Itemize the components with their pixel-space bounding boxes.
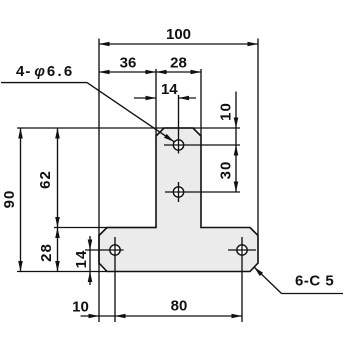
dimension 10 (bottom, outside arrow) <box>72 299 115 319</box>
svg-text:14: 14 <box>73 250 90 269</box>
leader 6-C5 (points to base bottom-right chamfer) <box>254 267 343 294</box>
hole H4 base right (phi 6.6) <box>237 245 247 255</box>
hole H3 crosshair horizontal / extension to left 14 dim <box>85 249 124 251</box>
svg-text:100: 100 <box>166 26 191 43</box>
hole H2 crosshair vertical <box>178 182 180 202</box>
hole H1 crosshair vertical / extension to 14 dim <box>178 95 180 154</box>
extension line stem right edge x=201 <box>200 69 202 136</box>
extension line stem left edge x=156 <box>155 69 157 136</box>
extension line left plate edge x=99 <box>98 39 100 323</box>
svg-text:90: 90 <box>1 190 18 209</box>
hole H1 crosshair horizontal <box>164 144 193 146</box>
svg-text:36: 36 <box>120 55 137 72</box>
extension line plate bottom y=271.5 <box>17 271 107 273</box>
svg-text:10: 10 <box>218 102 235 121</box>
svg-text:28: 28 <box>38 243 55 262</box>
svg-text:62: 62 <box>37 170 54 189</box>
extension line base top y=227.5 <box>54 227 156 229</box>
dimension 80 (bottom) <box>115 298 242 319</box>
svg-text:10: 10 <box>72 299 89 316</box>
dimension 28 (top) <box>156 55 201 75</box>
svg-text:28: 28 <box>170 55 187 72</box>
svg-text:6-C 5: 6-C 5 <box>295 273 334 290</box>
leader 4-phi6.6 (points to stem upper hole) <box>1 63 174 142</box>
hole H2 crosshair horizontal / extension to 30 dim <box>165 191 240 193</box>
dimension 14 (left, outside arrows) <box>73 236 92 285</box>
hole H4 crosshair horizontal <box>228 249 256 251</box>
hole H4 crosshair vertical / extension to bottom 80 dim <box>241 237 243 322</box>
plate outline (inverted-T plate with 6 chamfered corners) <box>99 128 258 272</box>
hole H1 stem upper (phi 6.6) <box>173 140 183 150</box>
dimension 30 (right) <box>218 145 239 192</box>
dimension 100 (top) <box>99 26 258 46</box>
dimension 10 (right, outside arrows) <box>218 92 239 156</box>
extension line plate top y=128 <box>17 127 240 129</box>
extension line right plate edge x=258 <box>257 39 259 236</box>
svg-text:30: 30 <box>218 161 235 180</box>
dimension 90 (left) <box>1 128 23 272</box>
svg-text:14: 14 <box>161 81 178 98</box>
dimension 62 (left) <box>37 128 60 228</box>
extension line hole H1 centerline y=145 <box>193 144 240 146</box>
svg-text:80: 80 <box>171 298 188 315</box>
dimension 28 (left) <box>38 228 60 272</box>
svg-text:4-φ6.6: 4-φ6.6 <box>16 63 74 80</box>
hole H3 base left (phi 6.6) <box>110 245 120 255</box>
dimension 14 (top, outside arrows) <box>134 81 196 100</box>
hole H2 stem lower (phi 6.6) <box>173 187 183 197</box>
dimension 36 (top) <box>99 55 156 75</box>
hole H3 crosshair vertical / extension to bottom 10 dim <box>114 237 116 322</box>
